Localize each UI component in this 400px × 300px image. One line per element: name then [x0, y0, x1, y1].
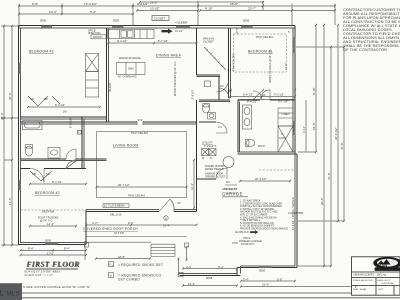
svg-text:10 1/2": 10 1/2" — [150, 7, 160, 11]
svg-text:BEDROOM #3: BEDROOM #3 — [29, 50, 54, 54]
svg-text:SINK: SINK — [128, 68, 134, 71]
svg-text:LOWER TRIM: LOWER TRIM — [288, 212, 303, 215]
svg-text:ISLAND: ISLAND — [108, 83, 112, 92]
svg-text:MLS: MLS — [7, 290, 20, 297]
svg-text:5050: 5050 — [113, 19, 120, 23]
svg-text:LIVING ROOM: LIVING ROOM — [113, 144, 138, 148]
svg-text:4'-4": 4'-4" — [92, 221, 98, 225]
svg-text:SHT: SHT — [379, 289, 384, 291]
svg-text:UTILITY: UTILITY — [202, 141, 213, 145]
svg-text:SLOPE FLR: SLOPE FLR — [235, 231, 249, 234]
svg-text:8'-4 1/2": 8'-4 1/2" — [117, 39, 127, 43]
svg-text:18'-8": 18'-8" — [118, 255, 125, 259]
svg-text:GARAGE: GARAGE — [222, 192, 243, 197]
svg-text:DET COMBO: DET COMBO — [118, 277, 140, 281]
svg-text:14'-4": 14'-4" — [8, 197, 12, 205]
svg-text:10'-4": 10'-4" — [49, 10, 57, 14]
svg-text:8'-4": 8'-4" — [28, 247, 34, 251]
svg-text:PANTRY: PANTRY — [93, 36, 103, 39]
svg-text:47'-8": 47'-8" — [340, 142, 344, 150]
svg-text:8'-8 1/2": 8'-8 1/2" — [137, 2, 148, 6]
svg-text:COPY RIGHT: COPY RIGHT — [381, 283, 395, 285]
svg-text:WOOD TRUSSES @ 24" O.C.: WOOD TRUSSES @ 24" O.C. — [269, 49, 272, 83]
svg-text:ANCHOR BOLTS @ 6'-0" O.C. AND: ANCHOR BOLTS @ 6'-0" O.C. AND — [240, 211, 278, 214]
svg-text:17'-0": 17'-0" — [47, 251, 54, 255]
svg-text:20'-6": 20'-6" — [320, 197, 324, 205]
svg-text:SCALE 3/16" = 1'-0": SCALE 3/16" = 1'-0" — [25, 273, 54, 277]
svg-text:8'-8": 8'-8" — [32, 2, 38, 6]
svg-text:5'-9 1/2": 5'-9 1/2" — [191, 89, 195, 99]
svg-text:COMP FILL W/ 6 MIL VAPOR BARRI: COMP FILL W/ 6 MIL VAPOR BARRIER — [240, 205, 282, 208]
svg-text:488 SQ FT: 488 SQ FT — [222, 187, 238, 191]
svg-text:DOOR 9'X7': DOOR 9'X7' — [241, 243, 255, 246]
svg-text:5. 2X4 BOTTOM TOP WALL ON: 5. 2X4 BOTTOM TOP WALL ON — [240, 222, 274, 225]
svg-text:OPENER OUTLET: OPENER OUTLET — [205, 175, 226, 178]
svg-text:6'-11": 6'-11" — [302, 126, 306, 133]
svg-text:LINEN: LINEN — [282, 112, 290, 116]
svg-text:DROP BM: DROP BM — [42, 209, 54, 213]
svg-text:41'-8": 41'-8" — [327, 172, 331, 180]
svg-text:T&N: T&N — [380, 263, 388, 268]
svg-text:4 SLIDER: 4 SLIDER — [175, 21, 187, 25]
svg-text:3. INSTALL 1 5/8 X 10" SEISM: 3. INSTALL 1 5/8 X 10" SEISMIC — [240, 208, 274, 211]
svg-text:5050: 5050 — [259, 269, 266, 273]
svg-text:5/8: 5/8 — [46, 172, 50, 176]
svg-text:12'-4": 12'-4" — [47, 222, 54, 226]
svg-text:D: D — [210, 157, 212, 160]
svg-text:8'-4 1/2": 8'-4 1/2" — [52, 180, 62, 184]
svg-text:6068: 6068 — [206, 276, 213, 280]
svg-text:6'-10": 6'-10" — [205, 7, 213, 11]
svg-text:6'-4 1/2": 6'-4 1/2" — [55, 103, 65, 107]
svg-text:FIRST FLOOR: FIRST FLOOR — [26, 259, 80, 268]
svg-text:10' 3 1/2 B BEAM: 10' 3 1/2 B BEAM — [104, 204, 124, 208]
svg-text:5050: 5050 — [40, 19, 47, 23]
svg-text:6'-2": 6'-2" — [90, 10, 96, 14]
svg-text:5/8: 5/8 — [44, 97, 48, 101]
svg-text:WATER HEATER: WATER HEATER — [205, 168, 224, 171]
svg-text:L: L — [0, 289, 4, 298]
svg-text:8'-10": 8'-10" — [312, 87, 316, 95]
svg-text:TRAY CEILING: TRAY CEILING — [128, 194, 145, 197]
svg-text:TRAY CEILING: TRAY CEILING — [256, 36, 273, 39]
svg-text:DN: DN — [226, 181, 230, 184]
svg-text:TRAY CEILING: TRAY CEILING — [233, 54, 236, 71]
svg-text:12'-2": 12'-2" — [190, 183, 194, 190]
svg-text:DBL 2x10: DBL 2x10 — [110, 213, 122, 217]
svg-text:W/IN 12" OF EA CORNER: W/IN 12" OF EA CORNER — [240, 214, 268, 217]
svg-text:30'-4": 30'-4" — [8, 92, 12, 100]
svg-text:5/8: 5/8 — [30, 97, 34, 101]
svg-text:WASTE STORAGE: WASTE STORAGE — [119, 57, 141, 60]
svg-text:D: D — [165, 218, 167, 221]
svg-text:5'-4": 5'-4" — [218, 265, 224, 269]
svg-text:2/4: 2/4 — [218, 126, 222, 129]
svg-text:5'-4": 5'-4" — [243, 277, 249, 281]
svg-text:6. NO GB BEHIND EA SAME PT.: 6. NO GB BEHIND EA SAME PT. — [240, 225, 275, 228]
svg-text:2/8: 2/8 — [63, 111, 67, 114]
svg-text:WOOD TRUSSES @ 24" O.C.: WOOD TRUSSES @ 24" O.C. — [173, 61, 177, 96]
svg-text:6'-4 1/2": 6'-4 1/2" — [243, 93, 253, 97]
svg-text:5050: 5050 — [243, 19, 250, 23]
svg-text:14'-9 1/2": 14'-9 1/2" — [84, 2, 97, 6]
svg-text:DATE: 05-17: DATE: 05-17 — [378, 279, 391, 282]
svg-text:= REQUIRED SMOKE DET: = REQUIRED SMOKE DET — [118, 263, 163, 267]
svg-text:16 1/2": 16 1/2" — [175, 29, 183, 33]
svg-text:TYPE X DRYWALL: TYPE X DRYWALL — [240, 219, 261, 222]
svg-text:WHITE HOMES: WHITE HOMES — [378, 269, 394, 271]
svg-text:3/0: 3/0 — [177, 201, 181, 205]
svg-text:TRAY CEILING: TRAY CEILING — [131, 132, 148, 135]
svg-text:11' 3 1/4" x 16" LVL HEADER: 11' 3 1/4" x 16" LVL HEADER — [292, 197, 295, 230]
svg-text:18 X 6'8": 18 X 6'8" — [114, 231, 124, 235]
svg-text:28'-6": 28'-6" — [230, 2, 238, 6]
svg-text:12'-4": 12'-4" — [163, 223, 170, 227]
svg-text:16'-2": 16'-2" — [150, 0, 158, 4]
svg-text:BATH: BATH — [258, 144, 265, 148]
svg-text:S: S — [110, 274, 112, 278]
svg-text:NEW BUILDERS - 1902 sq: NEW BUILDERS - 1902 sq — [354, 273, 387, 277]
svg-text:CLOSET: CLOSET — [154, 17, 165, 21]
svg-text:16'-4": 16'-4" — [188, 282, 195, 286]
svg-text:5/8: 5/8 — [32, 172, 36, 176]
svg-text:DWN: JGRAY: DWN: JGRAY — [353, 288, 367, 291]
svg-text:2. 2" REINFORCED CONC SLAB OV: 2. 2" REINFORCED CONC SLAB OVER — [240, 202, 282, 205]
svg-text:23'-7": 23'-7" — [248, 7, 256, 11]
svg-text:OF THE CONTRACTOR: OF THE CONTRACTOR — [343, 48, 387, 52]
svg-text:4. WALLS ADJOINING HOUSE 5/8: 4. WALLS ADJOINING HOUSE 5/8 — [240, 216, 277, 219]
svg-text:DINING AREA: DINING AREA — [156, 53, 182, 57]
svg-text:21'-4": 21'-4" — [262, 283, 269, 287]
svg-text:5050: 5050 — [45, 238, 52, 242]
svg-text:2'-4": 2'-4" — [186, 265, 192, 269]
svg-text:20'-1 1/2": 20'-1 1/2" — [255, 177, 267, 181]
svg-text:6'-7 1/2": 6'-7 1/2" — [158, 39, 168, 43]
svg-text:8'-4": 8'-4" — [128, 221, 134, 225]
svg-text:1. 3/2 WALT BRICK: 1. 3/2 WALT BRICK — [240, 200, 261, 203]
svg-text:COVERED SHED ROOF PORCH: COVERED SHED ROOF PORCH — [83, 227, 138, 231]
svg-text:42" OVERHANG: 42" OVERHANG — [118, 76, 137, 79]
svg-text:ATTIC: ATTIC — [279, 137, 286, 140]
svg-text:6'-4"x13'-6": 6'-4"x13'-6" — [204, 145, 217, 148]
svg-text:8'-4": 8'-4" — [64, 247, 70, 251]
svg-text:CLOSET: CLOSET — [203, 40, 214, 44]
svg-text:20'-7 1/2": 20'-7 1/2" — [118, 183, 130, 187]
svg-text:5'-8": 5'-8" — [277, 277, 283, 281]
svg-text:BEDROOM #2: BEDROOM #2 — [35, 191, 60, 195]
svg-text:2/6: 2/6 — [220, 85, 224, 88]
svg-text:S ARE UNITED DOUBLE HUNG: S ARE UNITED DOUBLE HUNG W/ LOW "E" — [23, 285, 91, 289]
svg-text:30'-8 1/2": 30'-8 1/2" — [334, 127, 338, 140]
svg-text:4'-3 1/2": 4'-3 1/2" — [274, 93, 284, 97]
svg-text:SCALE: AS NOTED: SCALE: AS NOTED — [353, 279, 373, 282]
svg-text:15'-5": 15'-5" — [312, 122, 316, 130]
svg-text:11'-2": 11'-2" — [284, 63, 288, 70]
svg-text:9'x9': 9'x9' — [138, 118, 144, 122]
